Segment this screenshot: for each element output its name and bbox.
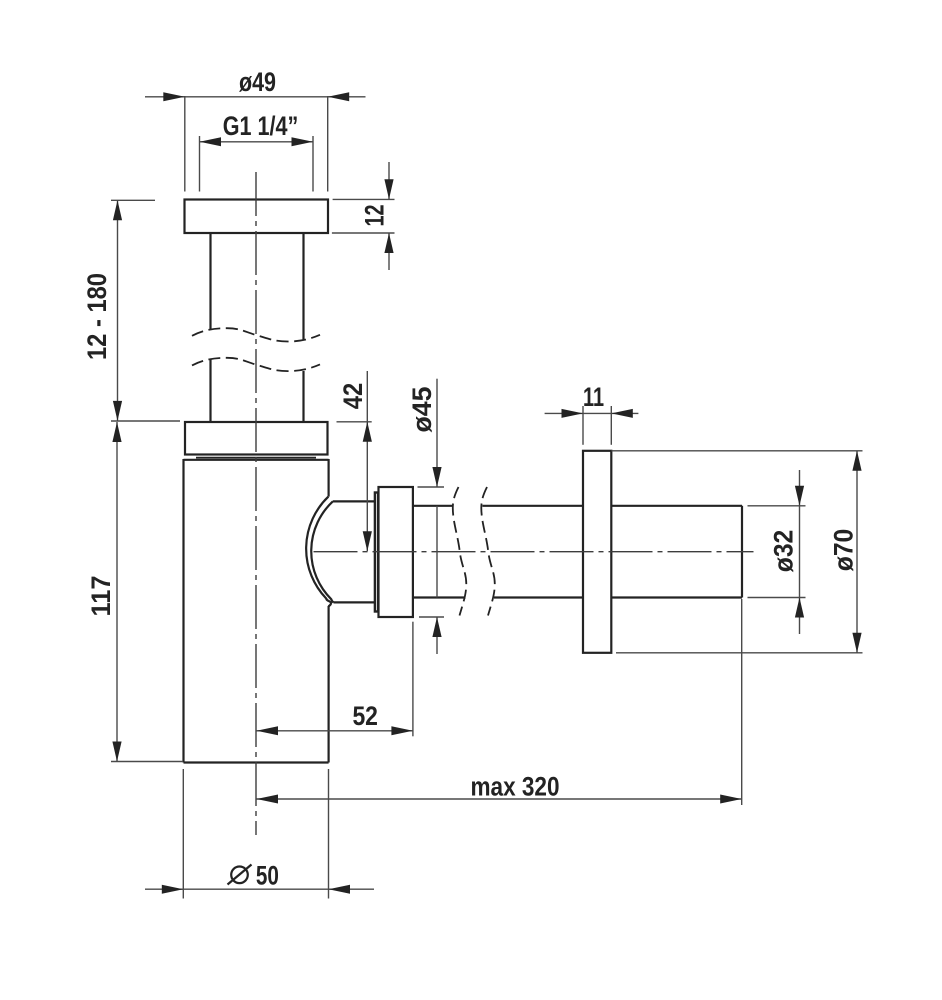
svg-text:ø49: ø49 bbox=[239, 67, 276, 97]
svg-text:11: 11 bbox=[583, 382, 604, 412]
svg-text:117: 117 bbox=[86, 576, 116, 617]
svg-text:ø70: ø70 bbox=[829, 529, 859, 572]
svg-text:12: 12 bbox=[360, 205, 390, 227]
svg-text:52: 52 bbox=[352, 701, 378, 731]
svg-text:G1 1/4”: G1 1/4” bbox=[223, 111, 299, 141]
svg-text:50: 50 bbox=[256, 860, 279, 890]
svg-text:ø32: ø32 bbox=[769, 530, 799, 573]
svg-text:42: 42 bbox=[338, 383, 368, 410]
svg-text:ø45: ø45 bbox=[407, 387, 437, 433]
svg-text:12 - 180: 12 - 180 bbox=[82, 273, 112, 360]
svg-text:max 320: max 320 bbox=[471, 772, 560, 802]
